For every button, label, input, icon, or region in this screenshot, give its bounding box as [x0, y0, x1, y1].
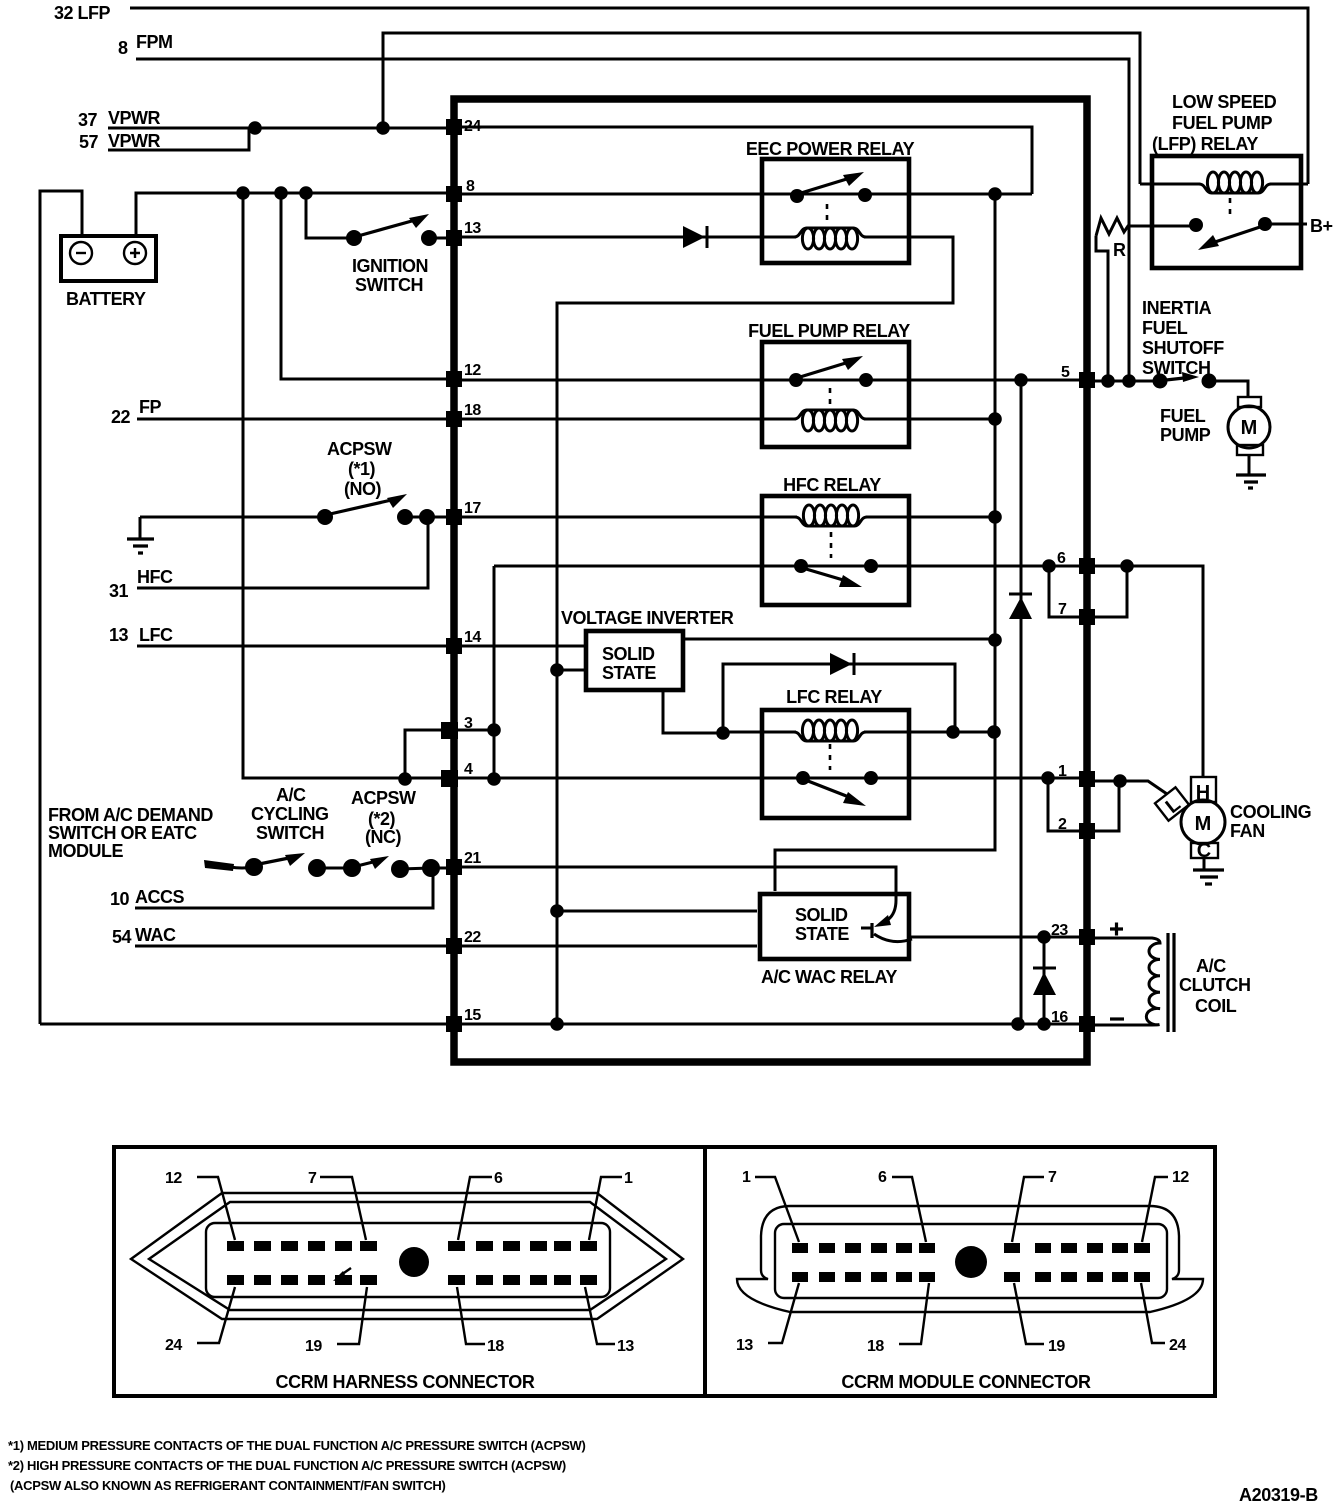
svg-text:21: 21	[464, 850, 481, 867]
pin 13	[446, 220, 481, 246]
svg-text:SOLID: SOLID	[795, 905, 848, 925]
svg-text:18: 18	[867, 1338, 884, 1355]
node 32 LFP label	[54, 3, 111, 23]
wire pin 22 to WAC box	[458, 945, 757, 948]
svg-text:HFC RELAY: HFC RELAY	[783, 475, 881, 495]
junction pin 4 tap	[487, 772, 501, 786]
wire pin 3 loop	[405, 730, 494, 778]
wire pin 24 internal	[458, 127, 1032, 194]
wire pin 7 external jumper	[1095, 566, 1127, 617]
pin 17	[446, 500, 481, 525]
wire inverter bottom to LFC coil	[663, 690, 723, 733]
node 54 WAC label	[112, 925, 176, 947]
motor cooling fan M2	[1155, 777, 1311, 862]
junction VPWR branch	[376, 121, 390, 135]
harness connector title	[276, 1372, 535, 1392]
svg-text:32 LFP: 32 LFP	[54, 3, 111, 23]
junction FP coil rail	[988, 412, 1002, 426]
pin 5	[1061, 364, 1095, 388]
svg-text:LFC RELAY: LFC RELAY	[786, 687, 882, 707]
svg-text:(NO): (NO)	[344, 479, 381, 499]
svg-text:10: 10	[110, 889, 130, 909]
svg-text:CCRM HARNESS CONNECTOR: CCRM HARNESS CONNECTOR	[276, 1372, 535, 1392]
svg-text:FROM A/C DEMAND: FROM A/C DEMAND	[48, 805, 213, 825]
pin 24	[446, 118, 481, 135]
svg-text:*1) MEDIUM PRESSURE CONTACTS O: *1) MEDIUM PRESSURE CONTACTS OF THE DUAL…	[8, 1438, 586, 1453]
footnote 1	[8, 1438, 586, 1453]
svg-text:19: 19	[305, 1338, 322, 1355]
svg-text:LFC: LFC	[139, 625, 173, 645]
wire pin 1-2 inner jumper	[1048, 778, 1079, 831]
pin 14	[446, 629, 481, 654]
junction EEC output rail	[988, 187, 1002, 201]
harness pin label 13	[585, 1287, 634, 1355]
harness pin label 7	[308, 1170, 366, 1240]
svg-text:COIL: COIL	[1195, 996, 1237, 1016]
footnote 3	[10, 1478, 446, 1493]
svg-text:IGNITION: IGNITION	[352, 256, 428, 276]
junction battery feed B	[274, 186, 288, 200]
svg-text:CCRM MODULE CONNECTOR: CCRM MODULE CONNECTOR	[841, 1372, 1091, 1392]
switch inertia fuel shutoff	[1142, 298, 1248, 397]
svg-text:ACPSW: ACPSW	[351, 788, 416, 808]
pin 1	[1058, 763, 1095, 787]
wire pin 18 to FP coil	[458, 418, 796, 421]
node 10 ACCS label	[110, 887, 184, 909]
coil HFC	[795, 505, 867, 526]
ground fuel pump	[1236, 455, 1266, 488]
junction clamp diode bottom	[1037, 1017, 1051, 1031]
pin 21	[446, 850, 481, 875]
svg-text:A20319-B: A20319-B	[1239, 1485, 1318, 1505]
svg-text:24: 24	[165, 1337, 182, 1354]
switch A/C cycling switch	[204, 785, 329, 876]
junction inverter rail	[988, 633, 1002, 647]
junction battery feed A	[236, 186, 250, 200]
harness pin label 24	[165, 1287, 235, 1354]
svg-text:CYCLING: CYCLING	[251, 804, 329, 824]
pin 7	[1058, 601, 1095, 625]
svg-text:SWITCH: SWITCH	[256, 823, 324, 843]
note drawing number A20319-B	[1239, 1485, 1318, 1505]
wire LFP (pin32 to LFP relay coil)	[130, 8, 1308, 184]
wire FPM (pin8 to fuel pump feed)	[136, 59, 1129, 381]
svg-text:17: 17	[464, 500, 481, 517]
svg-text:(*1): (*1)	[348, 459, 376, 479]
module pin label 19	[1014, 1283, 1065, 1355]
node 8 FPM label	[118, 32, 173, 58]
svg-text:M: M	[1195, 813, 1212, 835]
pin 3	[441, 715, 473, 739]
junction VPWR	[248, 121, 262, 135]
junction pin 3 tap	[487, 723, 501, 737]
svg-text:4: 4	[464, 761, 473, 778]
connector area frame	[114, 1147, 1215, 1396]
wire pin 13 to EEC coil	[458, 236, 796, 239]
wire HFC coil to rail	[866, 516, 995, 519]
svg-text:31: 31	[109, 581, 129, 601]
module top pin row	[792, 1243, 1150, 1253]
node 22 FP label	[111, 397, 161, 427]
junction pin 6 external	[1120, 559, 1134, 573]
wire pin 16 external	[1110, 1017, 1124, 1020]
svg-text:B+: B+	[1310, 216, 1333, 236]
svg-text:PUMP: PUMP	[1160, 425, 1211, 445]
junction pin 1 inner	[1041, 771, 1055, 785]
node 13 LFC label	[109, 625, 173, 645]
junction WAC ground tap	[550, 904, 564, 918]
relay HFC relay K3	[762, 475, 909, 605]
svg-text:6: 6	[1057, 550, 1066, 567]
relay A/C WAC (solid state) U2	[760, 894, 909, 987]
wire VPWR to pin 24	[108, 127, 449, 130]
svg-text:BATTERY: BATTERY	[66, 289, 146, 309]
svg-text:6: 6	[878, 1169, 887, 1186]
module pin label 12	[1142, 1169, 1189, 1242]
svg-text:(NC): (NC)	[365, 827, 401, 847]
junction LFC coil left	[716, 726, 730, 740]
svg-text:COOLING: COOLING	[1230, 802, 1311, 822]
svg-text:13: 13	[109, 625, 129, 645]
svg-text:FP: FP	[139, 397, 161, 417]
module pin label 13	[736, 1283, 799, 1354]
module pin label 6	[878, 1169, 926, 1242]
svg-text:5: 5	[1061, 364, 1070, 381]
svg-text:7: 7	[1048, 1169, 1057, 1186]
svg-text:STATE: STATE	[602, 663, 656, 683]
module connector title	[841, 1372, 1091, 1392]
pin 23	[1051, 922, 1095, 945]
svg-text:VPWR: VPWR	[108, 108, 161, 128]
ground cooling fan	[1193, 858, 1224, 884]
svg-text:SWITCH OR EATC: SWITCH OR EATC	[48, 823, 197, 843]
harness pin label 6	[458, 1170, 503, 1240]
harness pin label 12	[165, 1170, 235, 1240]
resistor R	[1096, 218, 1196, 381]
pin 8	[446, 178, 475, 202]
wire pin 6-7 inner jumper	[1049, 566, 1079, 617]
svg-text:FUEL: FUEL	[1160, 406, 1206, 426]
svg-text:37: 37	[78, 110, 98, 130]
wire pin 1 external	[1095, 781, 1167, 794]
module pin label 24	[1141, 1283, 1186, 1354]
pin 16	[1051, 1009, 1095, 1032]
svg-text:12: 12	[464, 362, 481, 379]
svg-text:FAN: FAN	[1230, 821, 1265, 841]
wire pin 23 external	[1110, 923, 1123, 936]
svg-text:A/C: A/C	[276, 785, 306, 805]
svg-text:EEC POWER RELAY: EEC POWER RELAY	[746, 139, 915, 159]
coil FP	[794, 410, 866, 431]
wire battery to pin 4 line	[243, 193, 449, 778]
wire rail VPWR internal	[775, 194, 995, 891]
connector CCRM harness shell	[131, 1193, 683, 1319]
motor fuel pump M1	[1160, 397, 1270, 455]
wire battery plus to pin 8	[136, 193, 449, 236]
wire pin 6 external to fan H	[1095, 566, 1203, 777]
switch ACPSW *2 (NC)	[308, 788, 449, 878]
node 31 HFC label	[109, 567, 173, 601]
wire pin 8 internal (EEC switch line)	[458, 193, 1032, 196]
diode D4	[1033, 968, 1056, 995]
wire ground loop to pin 15	[40, 1023, 449, 1026]
svg-text:8: 8	[118, 38, 128, 58]
junction pin 1 external	[1113, 774, 1127, 788]
pin 6	[1057, 550, 1095, 574]
wire battery to pin 12	[281, 193, 449, 379]
junction LFC coil rail	[987, 725, 1001, 739]
wire inverter ground input	[557, 669, 586, 672]
wire WAC to pin 22	[135, 945, 449, 948]
svg-text:M: M	[1241, 417, 1258, 439]
svg-text:13: 13	[736, 1337, 753, 1354]
svg-text:CLUTCH: CLUTCH	[1179, 975, 1251, 995]
svg-text:8: 8	[466, 178, 475, 195]
svg-text:LOW SPEED: LOW SPEED	[1172, 92, 1277, 112]
junction pin 4 left	[398, 772, 412, 786]
junction pin5/diode rail	[1014, 373, 1028, 387]
wire inverter output to rail	[683, 638, 995, 641]
svg-text:INERTIA: INERTIA	[1142, 298, 1212, 318]
node FROM A/C DEMAND label	[48, 805, 213, 861]
module bottom pin row	[792, 1272, 1150, 1282]
svg-text:15: 15	[464, 1007, 481, 1024]
harness pin label 18	[457, 1287, 504, 1355]
pin 12	[446, 362, 481, 387]
pin 4	[441, 761, 473, 787]
node 37 VPWR label	[78, 108, 161, 130]
junction battery feed C	[299, 186, 313, 200]
svg-text:SWITCH: SWITCH	[1142, 358, 1211, 378]
wire pin 21 to WAC transistor	[458, 867, 896, 900]
svg-text:R: R	[1113, 240, 1126, 260]
svg-text:18: 18	[464, 402, 481, 419]
voltage inverter U1	[561, 608, 734, 690]
svg-text:ACCS: ACCS	[135, 887, 184, 907]
relay low speed fuel pump (LFP) K5	[1152, 92, 1301, 268]
junction clamp diode top	[1037, 930, 1051, 944]
wire diode rail	[1020, 380, 1023, 1024]
wire WAC output to pin 23	[909, 936, 1079, 939]
diode D1	[683, 226, 707, 248]
switch ACPSW *1 (NO)	[317, 439, 449, 525]
wire LFC to pin 14	[137, 645, 449, 648]
svg-text:A/C WAC RELAY: A/C WAC RELAY	[761, 967, 897, 987]
ground G1 (ACPSW)	[127, 517, 154, 553]
junction inverter ground	[550, 663, 564, 677]
svg-text:WAC: WAC	[135, 925, 176, 945]
wire ACCS to pin 21 junction	[135, 868, 433, 908]
svg-text:13: 13	[464, 220, 481, 237]
svg-text:1: 1	[624, 1170, 633, 1187]
wire pin 4 to LFC switch to pin 1	[458, 777, 1079, 780]
svg-text:(ACPSW ALSO KNOWN AS REFRIGERA: (ACPSW ALSO KNOWN AS REFRIGERANT CONTAIN…	[10, 1478, 446, 1493]
relay LFC relay K4	[762, 687, 909, 818]
svg-text:FUEL PUMP: FUEL PUMP	[1172, 113, 1272, 133]
harness polarity arrow	[333, 1268, 351, 1281]
wire pin 15 to pin 16 internal	[458, 1023, 1079, 1026]
junction HFC coil rail	[988, 510, 1002, 524]
pin 22	[446, 929, 481, 954]
junction R tap	[1122, 374, 1136, 388]
wire pin 12 to pin 5	[458, 379, 1079, 382]
svg-text:FUEL: FUEL	[1142, 318, 1188, 338]
svg-text:14: 14	[464, 629, 481, 646]
svg-text:(LFP) RELAY: (LFP) RELAY	[1152, 134, 1258, 154]
CCRM module box	[454, 99, 1087, 1062]
wire pin 2 external jumper	[1095, 781, 1119, 831]
junction ground rail bottom	[550, 1017, 564, 1031]
wire battery to ignition switch	[306, 193, 354, 238]
module pin label 1	[742, 1169, 799, 1242]
junction diode rail bottom	[1011, 1017, 1025, 1031]
diode D3	[1009, 594, 1032, 619]
wire LFC diode loop	[723, 664, 955, 733]
wire ground rail to WAC box	[557, 910, 757, 913]
svg-text:STATE: STATE	[795, 924, 849, 944]
footnote 2	[8, 1458, 566, 1473]
coil EEC	[794, 228, 866, 249]
wire VPWR branch up to LFP relay coil	[383, 33, 1140, 184]
pin 18	[446, 402, 481, 427]
svg-text:HFC: HFC	[137, 567, 173, 587]
wire pin 17 to HFC coil	[458, 516, 797, 519]
wire pin 14 to inverter	[458, 645, 586, 648]
svg-text:FUEL PUMP RELAY: FUEL PUMP RELAY	[748, 321, 910, 341]
svg-text:6: 6	[494, 1170, 503, 1187]
svg-text:VPWR: VPWR	[108, 131, 161, 151]
svg-text:57: 57	[79, 132, 99, 152]
svg-text:ACPSW: ACPSW	[327, 439, 392, 459]
wire battery minus to left ground loop	[40, 191, 82, 1024]
wire FP coil to rail	[864, 418, 995, 421]
relay EEC power relay K1	[746, 139, 915, 263]
harness center post	[399, 1247, 429, 1277]
svg-text:12: 12	[1172, 1169, 1189, 1186]
harness pin label 19	[305, 1287, 367, 1355]
module pin label 7	[1012, 1169, 1057, 1242]
node 57 VPWR label	[79, 131, 161, 152]
harness pin label 1	[589, 1170, 633, 1240]
svg-text:SOLID: SOLID	[602, 644, 655, 664]
svg-text:24: 24	[1169, 1337, 1186, 1354]
wire EEC coil return to ground rail	[557, 237, 953, 1024]
svg-text:SWITCH: SWITCH	[355, 275, 423, 295]
relay fuel pump relay K2	[748, 321, 910, 447]
coil LFP	[1140, 172, 1308, 193]
svg-text:13: 13	[617, 1338, 634, 1355]
inductor A/C clutch coil L1	[1095, 933, 1251, 1032]
wire HFC switch to pins 3 and 4	[493, 566, 496, 779]
wire pin 5 external	[1095, 380, 1160, 383]
module pin label 18	[867, 1283, 929, 1355]
transistor Q1	[861, 900, 912, 942]
svg-text:(*2): (*2)	[368, 809, 396, 829]
wire HFC to ACPSW junction	[137, 517, 428, 588]
wire clamp diode branch	[1043, 937, 1046, 1024]
junction pin 6 inner	[1042, 559, 1056, 573]
junction LFC diode right	[946, 725, 960, 739]
coil LFC	[794, 720, 866, 741]
svg-text:FPM: FPM	[136, 32, 173, 52]
svg-text:12: 12	[165, 1170, 182, 1187]
svg-text:22: 22	[464, 929, 481, 946]
ignition switch S1	[346, 214, 449, 295]
pin 15	[446, 1007, 481, 1032]
svg-text:*2) HIGH PRESSURE CONTACTS OF: *2) HIGH PRESSURE CONTACTS OF THE DUAL F…	[8, 1458, 566, 1473]
svg-text:22: 22	[111, 407, 131, 427]
battery B1	[61, 236, 156, 309]
wire FP to pin 18	[137, 418, 449, 421]
svg-text:VOLTAGE INVERTER: VOLTAGE INVERTER	[561, 608, 734, 628]
pin 2	[1058, 816, 1095, 839]
svg-text:18: 18	[487, 1338, 504, 1355]
svg-text:54: 54	[112, 927, 132, 947]
svg-text:A/C: A/C	[1196, 956, 1226, 976]
svg-text:7: 7	[1058, 601, 1067, 618]
harness bottom pin row	[227, 1275, 597, 1285]
wire LFP contact to B+	[1265, 216, 1333, 236]
connector CCRM module shell	[737, 1206, 1203, 1312]
svg-text:1: 1	[742, 1169, 751, 1186]
wire HFC switch line to pin 6	[494, 565, 1079, 568]
svg-text:MODULE: MODULE	[48, 841, 123, 861]
wire 57 VPWR joining	[108, 128, 249, 150]
module center post	[955, 1246, 987, 1278]
svg-text:7: 7	[308, 1170, 317, 1187]
svg-text:19: 19	[1048, 1338, 1065, 1355]
svg-text:SHUTOFF: SHUTOFF	[1142, 338, 1224, 358]
harness top pin row	[227, 1241, 597, 1251]
wire LFC coil line	[723, 731, 995, 734]
diode D2	[830, 653, 854, 675]
junction FPM tap	[1101, 374, 1115, 388]
wire ground to ACPSW switch	[140, 516, 325, 519]
